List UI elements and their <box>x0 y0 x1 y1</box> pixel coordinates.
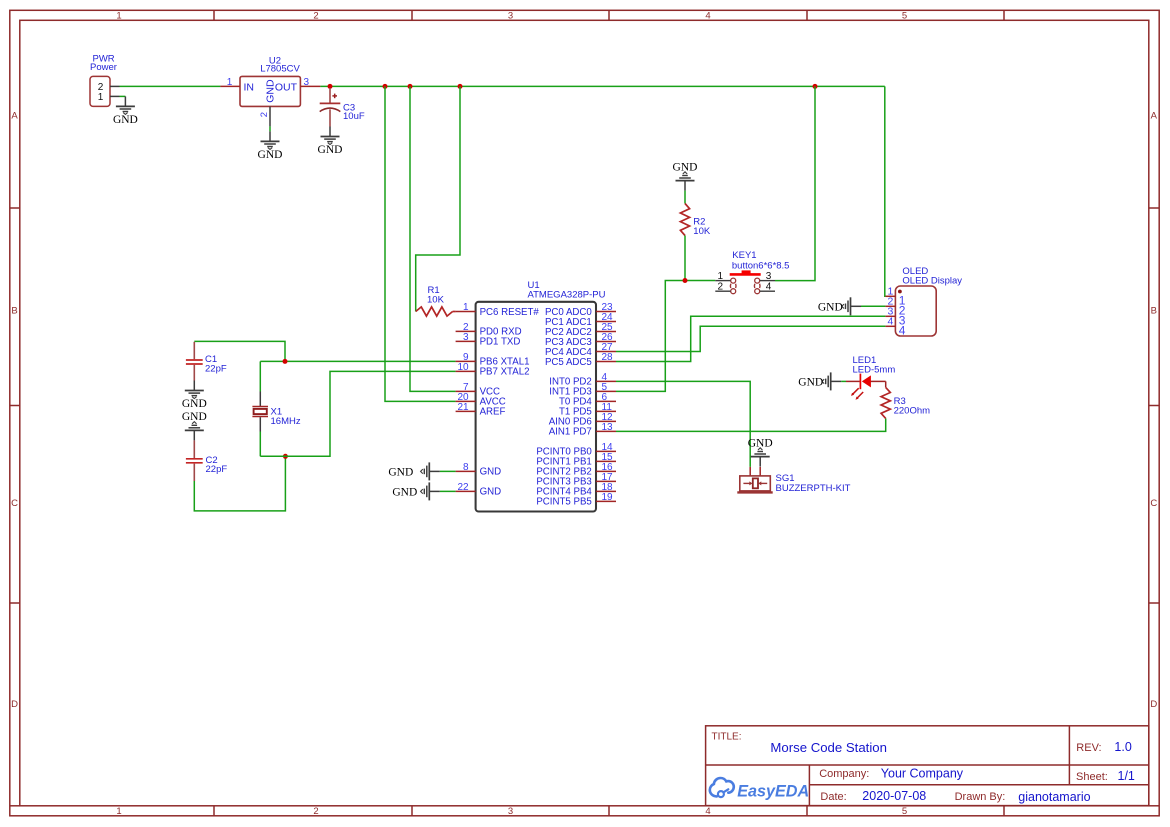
wire OLED pin2 to ground <box>861 305 885 307</box>
pin 2 lead of KEY1 <box>715 281 730 292</box>
svg-text:D: D <box>1150 699 1157 710</box>
resistor R2 10K <box>680 191 710 238</box>
wire PC5 ADC5 (pin 28) to OLED pin3 <box>616 316 885 361</box>
pin 3 PD1 TXD of U1 <box>456 332 521 348</box>
revision <box>1076 740 1132 754</box>
pin 13 AIN1 PD7 of U1 <box>549 422 616 438</box>
svg-text:Drawn By:: Drawn By: <box>955 791 1006 803</box>
pin 14 PCINT0 PB0 of U1 <box>536 442 616 458</box>
svg-text:GND: GND <box>673 161 698 173</box>
svg-text:1.0: 1.0 <box>1114 740 1131 754</box>
wire PC4 ADC4 (pin 27) to OLED pin4 <box>616 326 885 351</box>
pin 2 of OLED <box>885 296 905 318</box>
LED LED1 LED-5mm <box>846 355 895 400</box>
wire INT0 PD2 (pin 4) to SG1 pin1 <box>616 381 750 467</box>
wire PWR pin2 to U2 IN <box>120 85 221 87</box>
svg-text:GND: GND <box>388 467 413 479</box>
svg-text:PC6 RESET#: PC6 RESET# <box>480 307 540 318</box>
pin 21 AREF of U1 <box>456 402 506 418</box>
svg-text:19: 19 <box>602 492 614 503</box>
svg-text:10: 10 <box>457 362 469 373</box>
pin 12 AIN0 PD6 of U1 <box>549 412 616 428</box>
title text <box>712 732 887 756</box>
wire X1 top lead <box>259 361 261 391</box>
svg-text:1: 1 <box>463 302 469 313</box>
pin 25 PC2 ADC2 of U1 <box>545 322 616 338</box>
pin 15 PCINT1 PB1 of U1 <box>536 452 616 468</box>
svg-text:Sheet:: Sheet: <box>1076 771 1108 783</box>
svg-text:L7805CV: L7805CV <box>260 64 300 75</box>
svg-text:C: C <box>11 498 18 509</box>
svg-text:3: 3 <box>304 77 310 88</box>
wire PWR pin1 to ground <box>120 95 126 97</box>
svg-text:EasyEDA: EasyEDA <box>737 783 809 801</box>
svg-text:22pF: 22pF <box>206 464 228 475</box>
svg-text:OLED Display: OLED Display <box>902 276 962 287</box>
svg-text:10uF: 10uF <box>343 111 365 122</box>
svg-text:10K: 10K <box>693 226 711 237</box>
wire +5V rail from U2 OUT to OLED <box>320 85 884 87</box>
EasyEDA logo <box>710 778 809 801</box>
svg-text:13: 13 <box>602 422 614 433</box>
svg-text:8: 8 <box>463 462 469 473</box>
svg-text:22: 22 <box>457 482 469 493</box>
svg-text:16MHz: 16MHz <box>271 416 301 427</box>
svg-text:IN: IN <box>244 81 255 93</box>
ground GND at U1 pin 8 <box>440 470 456 472</box>
svg-text:A: A <box>11 111 18 122</box>
svg-text:GND: GND <box>258 149 283 161</box>
ground GND at OLED pin2 <box>818 297 861 315</box>
svg-text:GND: GND <box>748 437 773 449</box>
svg-text:1: 1 <box>717 271 723 282</box>
svg-text:220Ohm: 220Ohm <box>894 406 931 417</box>
buzzer SG1 BUZZERPTH-KIT <box>737 467 850 494</box>
svg-text:GND: GND <box>318 144 343 156</box>
IC U1 ATMEGA328P-PU <box>476 280 606 512</box>
pin 28 PC5 ADC5 of U1 <box>545 352 616 368</box>
pin 7 VCC of U1 <box>456 382 500 398</box>
node junction KEY1/R2 <box>683 278 688 283</box>
svg-text:AREF: AREF <box>480 407 506 418</box>
wire +5V to R1 <box>416 86 460 311</box>
svg-text:GND: GND <box>265 79 277 103</box>
svg-text:3: 3 <box>508 806 513 817</box>
svg-text:PC5 ADC5: PC5 ADC5 <box>545 357 592 368</box>
svg-text:LED-5mm: LED-5mm <box>853 365 896 376</box>
svg-text:4: 4 <box>766 281 772 292</box>
ground GND at PWR <box>113 96 138 126</box>
ground GND below C3 <box>318 127 343 157</box>
pin 2 of U2 (GND) <box>259 106 270 126</box>
pin 17 PCINT3 PB3 of U1 <box>536 472 616 488</box>
svg-text:3: 3 <box>463 332 469 343</box>
svg-text:TITLE:: TITLE: <box>712 732 742 743</box>
pin 1 of OLED <box>885 286 905 308</box>
node junction at VCC branch <box>408 84 413 89</box>
pin 19 PCINT5 PB5 of U1 <box>536 492 616 508</box>
wire AIN1 PD7 (pin 13) to R3 bottom <box>616 418 886 431</box>
svg-text:28: 28 <box>602 352 614 363</box>
ground GND above SG1 pin2 (flipped) <box>748 437 773 466</box>
svg-text:Company:: Company: <box>819 768 869 780</box>
node junction X1 bottom <box>283 454 288 459</box>
pin 1 lead of PWR <box>110 95 120 97</box>
ground GND at U1 pin 22 <box>440 490 456 492</box>
capacitor C1 22pF <box>186 342 227 381</box>
node junction at C3 top <box>328 84 333 89</box>
pin 1 of U2 (IN) <box>220 77 240 88</box>
connector OLED (OLED Display) <box>895 266 962 336</box>
wire X1 bottom lead <box>259 432 261 457</box>
wire U2 pin2 to ground <box>269 126 271 131</box>
wire R2 bottom to KEY1 node <box>684 236 686 281</box>
pin 4 INT0 PD2 of U1 <box>549 372 616 388</box>
switch KEY1 button6*6*8.5 <box>730 250 790 294</box>
pin 5 INT1 PD3 of U1 <box>549 382 616 398</box>
node junction at AVCC branch <box>383 84 388 89</box>
wire KEY1 pin3 to +5V rail <box>775 86 815 280</box>
svg-text:PD1 TXD: PD1 TXD <box>480 337 521 348</box>
pin 16 PCINT2 PB2 of U1 <box>536 462 616 478</box>
resistor R3 220Ohm <box>881 387 930 418</box>
node junction at KEY1 branch <box>813 84 818 89</box>
title block <box>706 726 1149 806</box>
svg-text:3: 3 <box>508 11 513 22</box>
wire X1 bottom to XTAL2 (pin 10) <box>260 371 455 456</box>
op-amp U2 L7805CV voltage regulator <box>240 56 300 107</box>
svg-text:GND: GND <box>182 398 207 410</box>
svg-text:2: 2 <box>717 281 723 292</box>
pin 2 PD0 RXD of U1 <box>456 322 522 338</box>
svg-text:2: 2 <box>259 112 270 117</box>
pin 1 lead of KEY1 <box>715 271 730 282</box>
svg-text:GND: GND <box>818 301 843 313</box>
svg-text:1: 1 <box>227 77 233 88</box>
wire X1 top branch <box>260 360 285 362</box>
svg-text:4: 4 <box>705 11 710 22</box>
svg-text:2: 2 <box>313 11 318 22</box>
svg-text:1: 1 <box>116 806 121 817</box>
svg-text:Morse Code Station: Morse Code Station <box>770 740 887 755</box>
ground GND at LED1 <box>798 372 841 390</box>
ground GND above C2 (flipped) <box>182 411 207 440</box>
pin 11 T1 PD5 of U1 <box>559 402 616 418</box>
pin 3 of OLED <box>885 306 905 328</box>
svg-text:GND: GND <box>113 114 138 126</box>
svg-text:Date:: Date: <box>820 791 846 803</box>
pin 24 PC1 ADC1 of U1 <box>545 312 616 328</box>
pin 6 T0 PD4 of U1 <box>559 392 616 408</box>
svg-text:D: D <box>11 699 18 710</box>
svg-text:4: 4 <box>705 806 710 817</box>
wire XTAL1 net (pin 9 to C1 and X1) <box>194 341 455 361</box>
svg-text:A: A <box>1151 111 1158 122</box>
capacitor C3 10uF polarized <box>320 88 365 127</box>
node junction at R1 branch <box>458 84 463 89</box>
svg-text:Your Company: Your Company <box>881 767 964 781</box>
svg-text:PCINT5 PB5: PCINT5 PB5 <box>536 497 591 508</box>
pin 1 PC6 RESET# of U1 <box>456 302 540 318</box>
svg-text:gianotamario: gianotamario <box>1018 790 1090 804</box>
pin 2 lead of PWR <box>110 85 120 87</box>
pin 9 PB6 XTAL1 of U1 <box>456 352 530 368</box>
ground GND below C1 <box>182 381 207 411</box>
svg-text:10K: 10K <box>427 295 445 306</box>
svg-text:REV:: REV: <box>1076 742 1101 754</box>
pin 4 lead of KEY1 <box>760 281 775 292</box>
pin 26 PC3 ADC3 of U1 <box>545 332 616 348</box>
svg-text:GND: GND <box>480 487 502 498</box>
svg-text:4: 4 <box>899 324 906 338</box>
ground GND above R2 (flipped) <box>673 161 698 190</box>
svg-text:1: 1 <box>98 92 104 103</box>
svg-text:BUZZERPTH-KIT: BUZZERPTH-KIT <box>776 483 851 494</box>
connector PWR (Power) <box>90 54 117 107</box>
wire KEY1 pin1 to INT1 PD3 (pin 5) <box>616 281 715 392</box>
svg-text:Power: Power <box>90 62 117 73</box>
pin 23 PC0 ADC0 of U1 <box>545 302 616 318</box>
svg-text:GND: GND <box>182 411 207 423</box>
crystal X1 16MHz <box>252 392 300 432</box>
svg-text:2: 2 <box>313 806 318 817</box>
svg-text:B: B <box>1151 306 1157 317</box>
wire +5V to AVCC (pin 20) <box>385 86 456 401</box>
svg-text:OUT: OUT <box>275 81 298 93</box>
svg-text:GND: GND <box>392 487 417 499</box>
svg-text:2020-07-08: 2020-07-08 <box>862 789 926 803</box>
pin 3 lead of KEY1 <box>760 271 775 282</box>
svg-text:5: 5 <box>902 11 907 22</box>
pin 4 of OLED <box>885 316 905 338</box>
svg-text:5: 5 <box>902 806 907 817</box>
company row <box>819 767 964 781</box>
svg-text:GND: GND <box>798 377 823 389</box>
pin 27 PC4 ADC4 of U1 <box>545 342 616 358</box>
svg-text:C: C <box>1150 498 1157 509</box>
svg-text:ATMEGA328P-PU: ATMEGA328P-PU <box>528 290 606 301</box>
ground GND below U2 <box>258 131 283 161</box>
resistor R1 10K <box>416 285 456 316</box>
pin 22 GND of U1 <box>456 482 502 498</box>
wire LED1 cathode to ground <box>841 380 846 382</box>
wire C2 bottom loop to X1 bottom <box>194 456 285 511</box>
svg-text:button6*6*8.5: button6*6*8.5 <box>732 260 790 271</box>
svg-text:1: 1 <box>116 11 121 22</box>
svg-text:21: 21 <box>457 402 469 413</box>
svg-text:1/1: 1/1 <box>1118 769 1135 783</box>
svg-text:AIN1 PD7: AIN1 PD7 <box>549 427 592 438</box>
date row <box>820 789 1090 804</box>
node junction XTAL1 <box>283 359 288 364</box>
pin 8 GND of U1 <box>456 462 502 478</box>
svg-text:4: 4 <box>888 316 894 328</box>
pin 18 PCINT4 PB4 of U1 <box>536 482 616 498</box>
svg-text:B: B <box>11 306 17 317</box>
svg-text:22pF: 22pF <box>205 363 227 374</box>
sheet number <box>1076 769 1135 783</box>
svg-text:PB7 XTAL2: PB7 XTAL2 <box>480 367 530 378</box>
pin 20 AVCC of U1 <box>456 392 506 408</box>
svg-text:GND: GND <box>480 467 502 478</box>
svg-text:3: 3 <box>766 271 772 282</box>
pin 3 of U2 (OUT) <box>300 77 320 88</box>
pin 10 PB7 XTAL2 of U1 <box>456 362 530 378</box>
wire +5V to VCC (pin 7) <box>410 86 456 391</box>
wire +5V rail to OLED pin1 <box>884 86 887 296</box>
capacitor C2 22pF <box>186 440 227 481</box>
